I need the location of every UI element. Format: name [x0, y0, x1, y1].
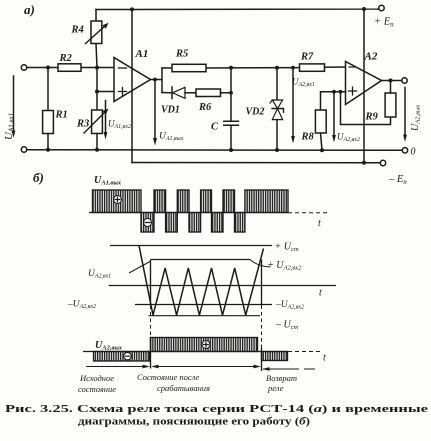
voltage arrow U A2,вых — [404, 88, 406, 137]
wire to A1 plus input — [97, 91, 114, 93]
svg-text:UА1,вых: UА1,вых — [159, 132, 184, 143]
voltage arrow U A2,вх1 — [292, 68, 294, 137]
node dot A1 output measuring branch — [153, 78, 157, 82]
wire left branch from top rail down — [131, 9, 133, 162]
svg-text:UА2,вх1: UА2,вх1 — [292, 77, 315, 89]
resistor R6 — [196, 89, 221, 97]
node dot R1 bottom — [46, 148, 50, 152]
svg-text:UА2,вх2: UА2,вх2 — [337, 132, 360, 144]
svg-text:UА1,вх1: UА1,вх1 — [3, 113, 16, 140]
voltage arrow U A1,вх1 — [13, 76, 15, 132]
diagram 1 pulse up 6 wide — [245, 190, 288, 213]
svg-text:–UА2,вх2: –UА2,вх2 — [67, 300, 96, 311]
pointer to +U A2,вх2 label — [250, 260, 270, 268]
diagram 3 pulse negative return — [262, 352, 288, 361]
-Eп terminal — [380, 160, 385, 165]
node dot U A2,вх2 branch — [332, 90, 336, 94]
voltage arrow U A1,вх2 — [105, 101, 107, 134]
node dot at R3/R4 column top wire — [95, 66, 99, 70]
svg-text:R3: R3 — [76, 119, 89, 130]
node dot top rail A2 supply — [362, 7, 366, 11]
resistor R7 — [300, 64, 325, 71]
svg-text:б): б) — [33, 170, 44, 185]
wire A2 supply vertical — [363, 9, 365, 163]
svg-text:R1: R1 — [55, 110, 68, 121]
wire A2 non-inverting input — [321, 92, 346, 110]
interval arrow return — [263, 368, 299, 370]
svg-text:UА2,вых: UА2,вых — [95, 340, 123, 352]
svg-text:VD1: VD1 — [161, 105, 180, 116]
minus mark — [124, 353, 131, 360]
node dot VD2 bottom — [275, 148, 279, 152]
node dot R6 joins C branch — [229, 91, 233, 95]
plus mark — [202, 341, 210, 349]
diagram 1 pulse down 4 — [212, 213, 224, 233]
svg-text:Состояние после: Состояние после — [137, 372, 200, 382]
svg-text:R2: R2 — [59, 53, 73, 64]
node dot A2 negative supply on rail — [362, 161, 366, 165]
voltage arrow U A2,вх2 — [333, 92, 335, 137]
diagram 1 pulse up 5 — [223, 190, 235, 213]
svg-text:Возврат: Возврат — [266, 373, 297, 383]
svg-text:R5: R5 — [175, 49, 188, 60]
wire A2 output — [382, 80, 402, 82]
diagram 1 time axis — [89, 212, 288, 214]
svg-text:– Eп: – Eп — [388, 174, 407, 186]
svg-text:A1: A1 — [135, 48, 149, 60]
diagram 1 pulse down 3 — [189, 213, 201, 233]
wire inverting node down to R3 / plus node — [96, 68, 98, 111]
0 terminal — [402, 148, 407, 153]
+Eп terminal — [379, 5, 384, 10]
svg-text:срабатывания: срабатывания — [157, 383, 210, 393]
node dot C bottom — [229, 148, 233, 152]
wire output split bar — [161, 68, 163, 93]
diagram 2 time axis — [109, 285, 336, 287]
event marker right (release) — [261, 260, 263, 306]
svg-text:t: t — [319, 288, 322, 299]
svg-text:VD2: VD2 — [246, 107, 265, 118]
resistor R2 — [58, 64, 81, 72]
diagram 1 pulse up 1 — [93, 190, 142, 213]
wire bottom negative rail — [132, 162, 380, 164]
resistor R1 — [47, 68, 49, 150]
diagram 2 level line +Uст — [110, 245, 272, 247]
svg-text:+ UА2,вх2: + UА2,вх2 — [267, 260, 302, 272]
svg-text:UА1,вх2: UА1,вх2 — [108, 119, 131, 131]
output terminal — [402, 78, 407, 83]
resistor R5 — [162, 67, 300, 69]
svg-text:t: t — [323, 353, 326, 364]
svg-text:UА2,вх1: UА2,вх1 — [88, 269, 111, 280]
svg-text:t: t — [318, 218, 321, 229]
interval arrow operated state — [153, 366, 259, 368]
diagram 1 pulse up 3 — [177, 190, 189, 213]
interval arrow initial state — [86, 366, 148, 368]
wire positive feedback — [341, 92, 391, 125]
node dot R8 bottom — [320, 148, 324, 152]
svg-text:диаграммы, поясняющие его рабо: диаграммы, поясняющие его работу (б) — [78, 416, 310, 428]
diagram 2 level line -Uст — [149, 315, 261, 317]
resistor R4 (variable) — [96, 10, 97, 68]
resistor R9 — [385, 93, 396, 117]
node dot R5/C branch — [229, 66, 233, 70]
node dot U A2,вх1 branch — [291, 66, 295, 70]
diagram 1 pulse up 4 — [201, 190, 212, 213]
svg-text:A2: A2 — [364, 51, 378, 63]
svg-text:– Uст: – Uст — [275, 320, 299, 332]
svg-text:UА2,вых: UА2,вых — [410, 105, 422, 131]
svg-text:R8: R8 — [301, 132, 315, 143]
sawtooth trace — [139, 246, 264, 316]
node dot VD2 branch — [275, 66, 279, 70]
capacitor C — [224, 121, 239, 125]
top supply rail — [96, 8, 379, 11]
plus mark in pulse — [114, 196, 122, 204]
node dot feedback branch — [339, 90, 343, 94]
resistor R3 (variable) — [92, 110, 103, 134]
svg-text:–UА2,вх2: –UА2,вх2 — [275, 300, 304, 311]
svg-text:R9: R9 — [365, 112, 379, 123]
event marker left (operate) — [150, 260, 152, 306]
input terminal top — [21, 65, 26, 70]
resistor R8 — [315, 110, 326, 133]
svg-text:реле: реле — [267, 383, 284, 393]
node dot output to R9 — [389, 79, 393, 83]
wire A1 output — [151, 79, 163, 81]
diagram 1 pulse down 1 — [141, 213, 154, 233]
pointer from U A2,вх1 label to trace — [129, 262, 150, 274]
diagram 3 pulse positive operated — [151, 338, 258, 352]
diagram 1 pulse up 2 — [154, 190, 166, 213]
diagram 3 pulse negative initial — [94, 352, 150, 362]
node dot A1 plus input — [95, 90, 99, 94]
minus mark in pulse — [144, 219, 152, 227]
svg-text:C: C — [211, 122, 219, 133]
diagram 1 pulse down 2 — [166, 213, 178, 233]
diode VD1 — [162, 92, 172, 94]
node dot R1 top — [46, 66, 50, 70]
ground rail wire — [27, 149, 402, 152]
svg-text:+ Uст: + Uст — [275, 242, 299, 254]
input terminal bottom — [21, 147, 26, 152]
wire C branch vertical — [230, 68, 232, 122]
svg-text:Рис. 3.25. Схема реле тока сер: Рис. 3.25. Схема реле тока серии РСТ-14 … — [5, 403, 428, 415]
op-amp A2 — [346, 62, 382, 105]
svg-text:R6: R6 — [198, 102, 212, 113]
node dot top rail feedback branch — [130, 7, 134, 11]
svg-text:состояние: состояние — [78, 384, 116, 394]
wire top input to A1 inverting input — [27, 67, 114, 69]
svg-text:+ Eп: + Eп — [374, 17, 394, 29]
diagram 2 level line +U A2,вх2 — [151, 259, 251, 261]
node dot R3 bottom — [95, 148, 99, 152]
svg-text:а): а) — [24, 2, 35, 17]
svg-text:R4: R4 — [71, 25, 84, 36]
diagram 3 time axis — [83, 351, 288, 353]
svg-text:Исходное: Исходное — [79, 373, 114, 383]
svg-text:UА1,вых: UА1,вых — [94, 175, 122, 187]
op-amp A1 — [114, 58, 151, 102]
diagram 2 level line -U A2,вх2 — [135, 304, 272, 306]
voltage arrow U A1,вых — [154, 80, 156, 140]
zener VD2 (bidirectional) — [276, 68, 278, 100]
svg-text:0: 0 — [411, 147, 416, 158]
diagram 1 pulse down 5 — [235, 213, 245, 233]
svg-text:R7: R7 — [300, 52, 314, 63]
